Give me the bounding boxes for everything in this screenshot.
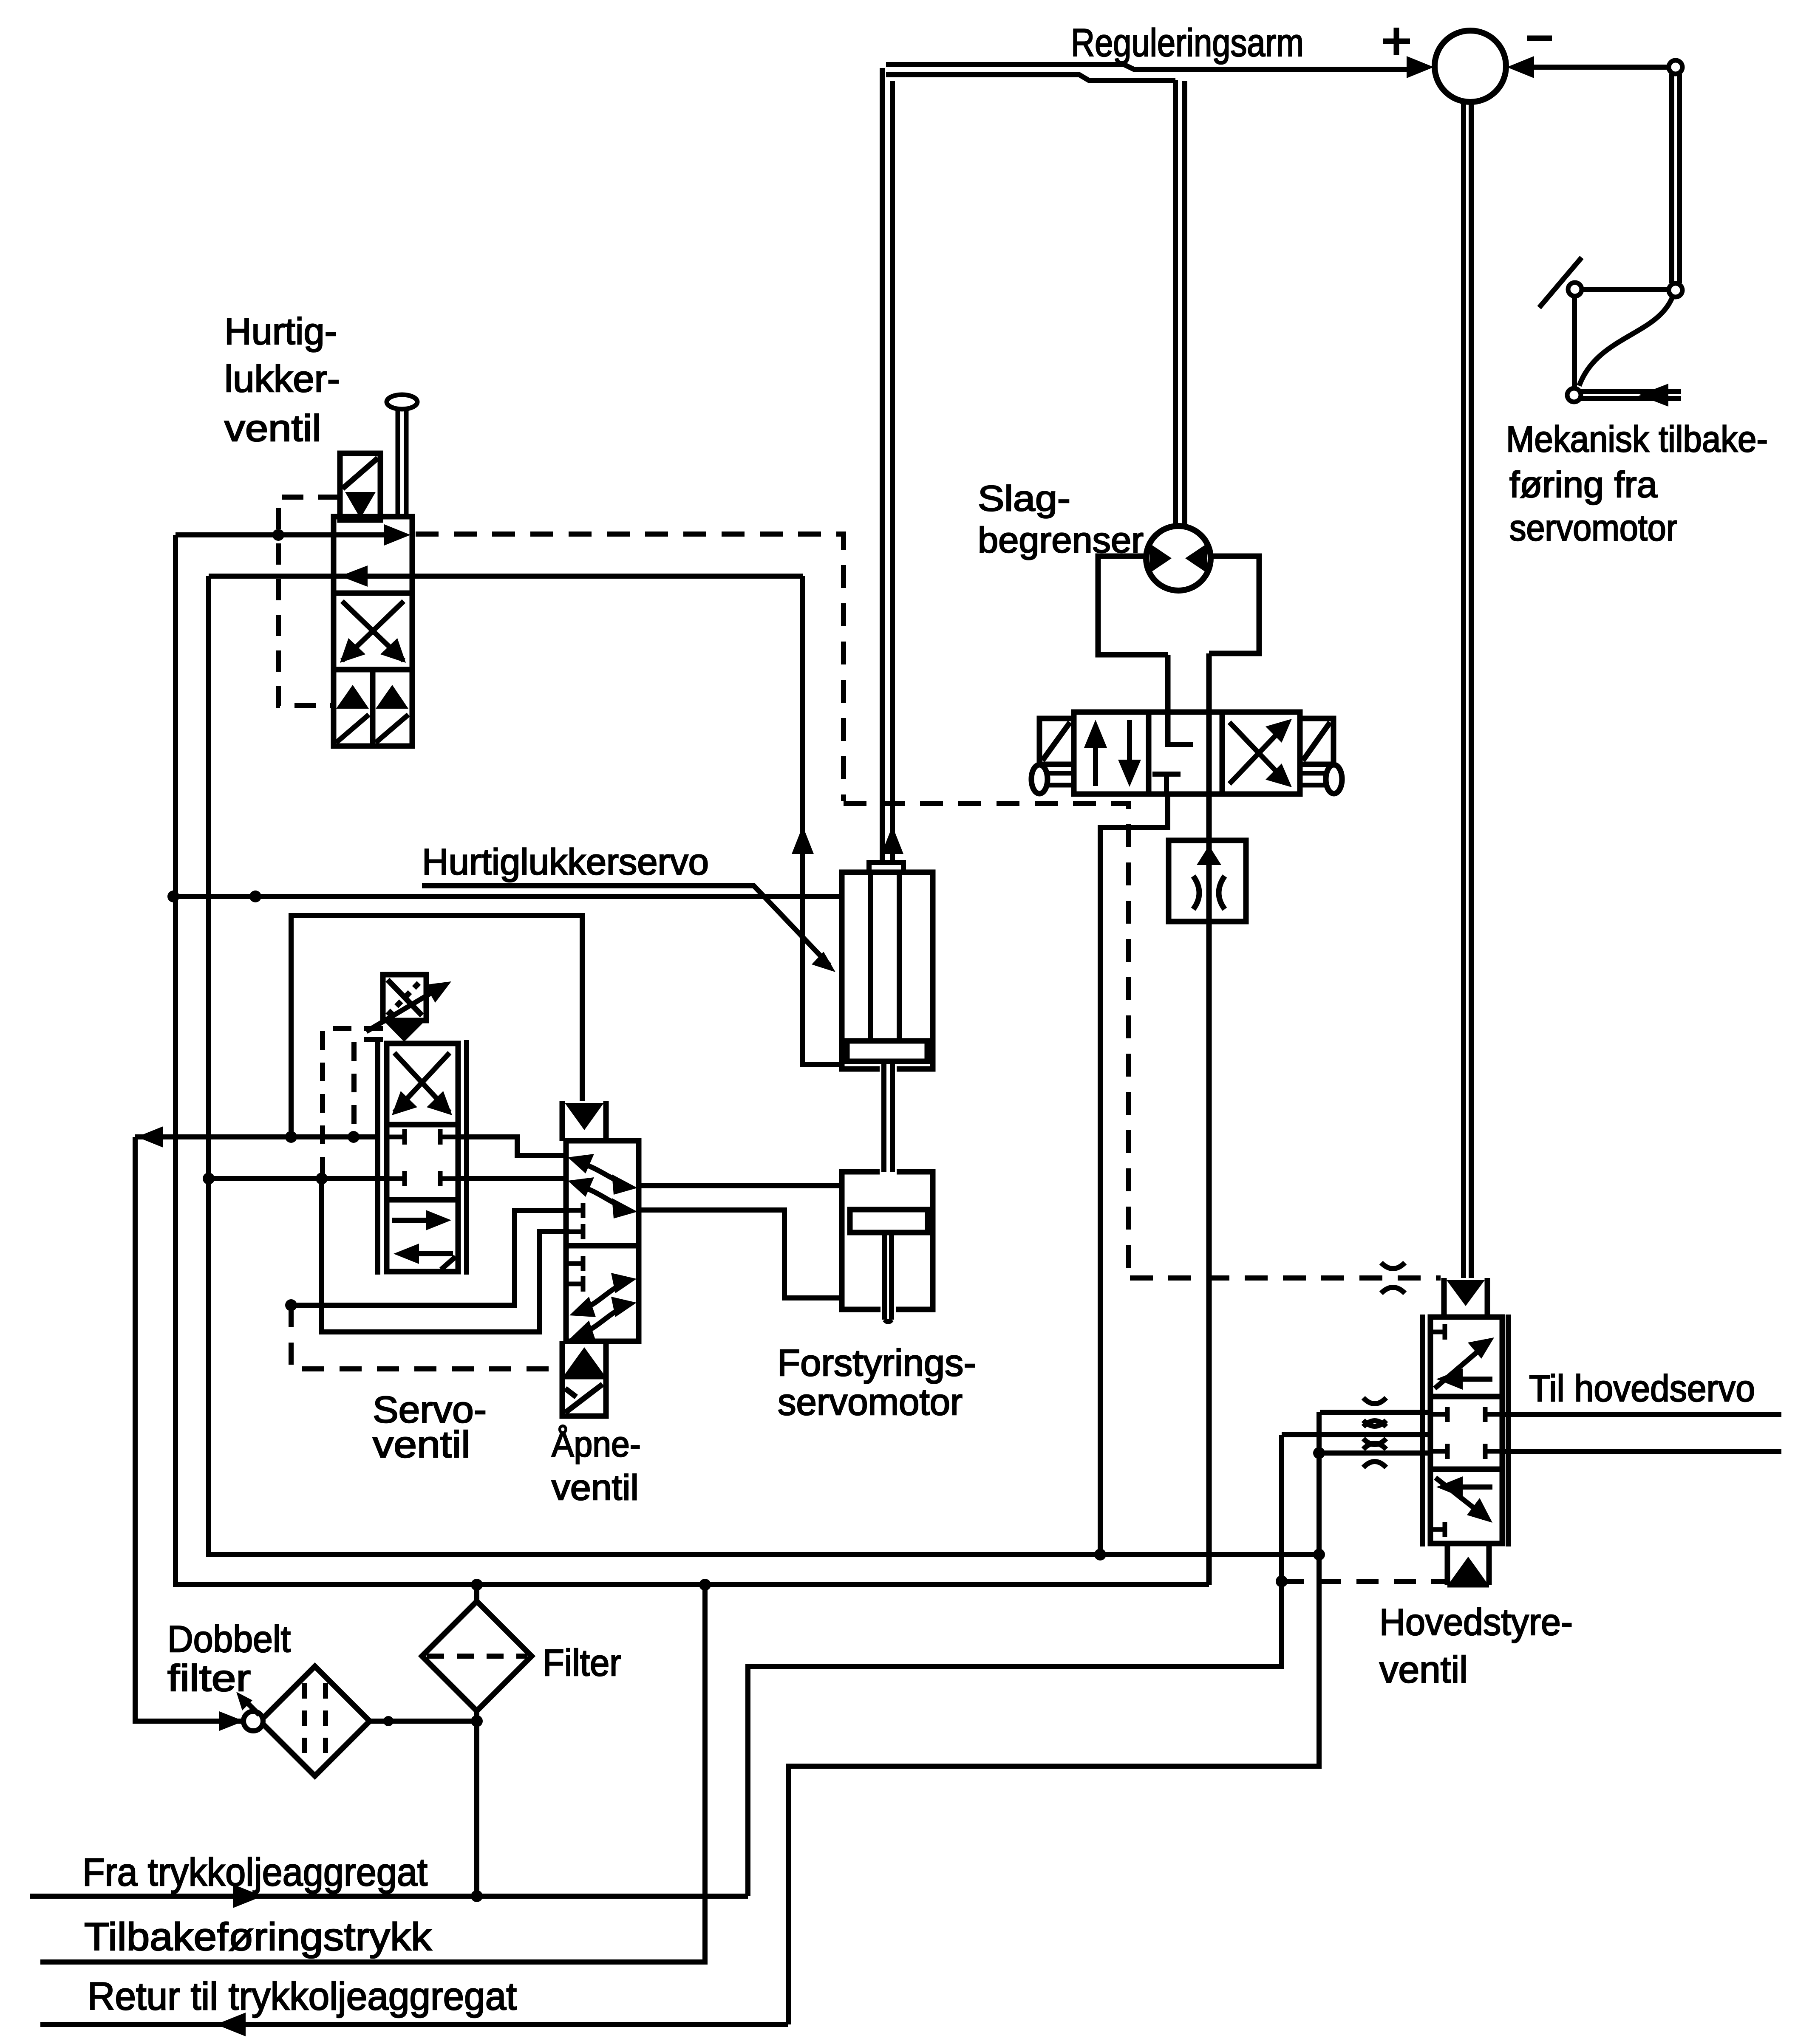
svg-text:Dobbelt: Dobbelt [167, 1618, 291, 1660]
label ventil hovedstyre [1379, 1648, 1468, 1691]
spring detent right cell of hurtiglukkerventil [376, 685, 408, 743]
label Tilbakefoeringstrykk [84, 1915, 432, 1959]
solenoid of hurtiglukkerventil [340, 453, 380, 520]
label ventil apne [552, 1467, 639, 1507]
throttle check box on right pipe [1169, 840, 1246, 922]
arrow into dobbelt filter [219, 1711, 244, 1731]
svg-text:Til hovedservo: Til hovedservo [1529, 1367, 1755, 1409]
wire vertical 3016 from port2 to line 3922 [748, 1435, 1282, 1896]
hovedstyre top cell left arrow [1436, 1368, 1492, 1390]
piston rod between cylinders [884, 1061, 892, 1172]
wire line2 y2774 [209, 1176, 387, 1181]
label filter [167, 1657, 251, 1699]
mechanical link horizontal [1581, 287, 1669, 292]
svg-text:ventil: ventil [373, 1423, 470, 1465]
svg-text:Tilbakeføringstrykk: Tilbakeføringstrykk [84, 1915, 432, 1959]
valve middle cell blocked L port [1168, 712, 1193, 744]
svg-text:Hurtig-: Hurtig- [224, 310, 337, 352]
arrow right on supply line [233, 1884, 263, 1908]
slagbegrenser directional valve body [1074, 712, 1300, 794]
valve middle cell blocked T port [1152, 774, 1181, 794]
junction dot at 914,4051 [383, 1716, 394, 1726]
wire apne right port2 to cylinder lower port [639, 1210, 842, 1298]
flow arrow up on rod [881, 826, 903, 854]
junction dot at 408,2110 [167, 891, 179, 902]
label foering fra [1509, 464, 1657, 505]
label Reguleringsarm [1071, 21, 1304, 65]
filter diamond dashed diagonal [427, 1654, 527, 1659]
wire rod down to slagbegrenser right line [1182, 81, 1187, 528]
wire reguleringsarm upper line [886, 65, 1409, 69]
apne bottom spring arrow box [562, 1341, 606, 1377]
label Slag- [978, 478, 1070, 518]
wire hovedstyre right port 2 [1502, 1449, 1781, 1454]
pipe left leg through valve [1165, 655, 1171, 744]
dashed pilot line from valve to right [416, 534, 1441, 1278]
svg-text:servomotor: servomotor [1509, 508, 1677, 548]
manual pin left [1031, 765, 1074, 794]
junction dot line3659 at 3104 [1313, 1549, 1325, 1561]
apne lower cell curved arrows [569, 1273, 637, 1341]
apne upper cell T ports [566, 1203, 583, 1239]
dashed pilot line left of hurtiglukkerventil [278, 497, 339, 706]
wire from line2 down to line4 and up to apne port4 [322, 1179, 569, 1332]
apne spring box [562, 1377, 606, 1416]
pilot triangle seat [386, 1023, 423, 1042]
summing junction circle [1435, 31, 1506, 102]
wire hovedstyre right port 1 [1502, 1412, 1781, 1417]
solenoid left of slagbegrenser valve [1039, 718, 1074, 764]
servo bottom cell right arrow [392, 1210, 451, 1230]
junction dot line3 at 685 [285, 1299, 297, 1311]
junction dot line2 at 491 [203, 1173, 215, 1185]
apne lower cell T ports [566, 1256, 583, 1292]
svg-text:filter: filter [167, 1657, 251, 1699]
svg-text:Slag-: Slag- [978, 478, 1070, 518]
wire dobbelt filter to filter vertical [370, 1721, 477, 1896]
servo pilot pressure box [383, 975, 426, 1021]
wire frame from line1 up and over to apne-ventil feed [291, 916, 582, 1137]
fulcrum pivot circle [1568, 283, 1582, 296]
hurtiglukkerventil body [334, 517, 412, 746]
svg-text:ventil: ventil [224, 407, 321, 449]
wire line1 y2676 with left arrow [135, 1126, 378, 1148]
label Retur til trykkoljeaggregat [88, 1975, 517, 2018]
junction dot port3 [1313, 1447, 1325, 1459]
hovedstyreventil input arrow box [1444, 1278, 1487, 1317]
wire hovedstyre left port2 from vertical 3016 [1282, 1432, 1430, 1437]
changeover lever with arrow [236, 1692, 259, 1715]
pipe right leg down to bottom line [1206, 653, 1212, 1585]
supply line fra trykkoljeaggregat [30, 1894, 748, 1899]
servo cylinder collar [869, 862, 903, 872]
flexible link s-curve [1579, 297, 1673, 386]
label Hovedstyre- [1379, 1601, 1573, 1643]
wire supply line y2110 to servo cylinder [173, 894, 842, 899]
valve left cell up arrow [1084, 720, 1107, 786]
forstyringsservomotor piston [850, 1210, 928, 1233]
crossed arrows in hurtiglukkerventil middle cell [340, 601, 406, 663]
arrow into summing circle from left [1407, 56, 1434, 78]
label begrenser [978, 520, 1144, 560]
dashed pilot rectangle seg A of servo pilot [323, 1029, 383, 1176]
label Servo- [373, 1388, 487, 1431]
label Hurtiglukkerservo underlined [422, 842, 709, 882]
apne-ventil feed arrow box top [562, 1101, 606, 1141]
dobbelt filter dashed internals [304, 1683, 326, 1759]
hovedstyreventil body [1430, 1317, 1502, 1544]
label lukker- [224, 358, 340, 400]
up arrow inside throttle box [1197, 845, 1221, 865]
arrow left on return line [216, 2013, 246, 2036]
servo middle cell port T marks [387, 1129, 458, 1186]
wire long vertical V491 to line 3659 [209, 576, 1319, 1555]
junction dot dashed pilot on port line [272, 529, 284, 541]
hovedstyre top cell diagonal arrow [1435, 1337, 1494, 1388]
pivot joint top right [1669, 60, 1682, 74]
svg-text:ventil: ventil [552, 1467, 639, 1507]
junction dot dashed pilot at 3016 [1276, 1575, 1288, 1587]
hovedstyreventil side rails [1422, 1315, 1508, 1546]
label Mekanisk tilbake- [1506, 419, 1768, 460]
label servomotor [1509, 508, 1677, 548]
leader line of hurtiglukkerservo label [422, 886, 835, 972]
valve left cell down arrow [1118, 720, 1141, 787]
svg-text:Fra trykkoljeaggregat: Fra trykkoljeaggregat [82, 1851, 428, 1894]
dashed pilot seg B of servo pilot [354, 1040, 383, 1134]
wire vertical V318 down to dobbelt filter line [135, 1137, 244, 1721]
wire servo right port to apne p1 with jog [458, 1137, 565, 1156]
wire from right pivot to summing circle [1532, 65, 1670, 70]
cam wedge left [1149, 543, 1172, 573]
pivot joint lower [1567, 388, 1581, 402]
svg-text:Reguleringsarm: Reguleringsarm [1071, 21, 1304, 65]
servo-ventil side rails [378, 1040, 467, 1275]
hovedstyre bottom cell diagonal arrow [1435, 1478, 1492, 1523]
changeover circle [243, 1711, 263, 1731]
wire servo right port to apne p2 [458, 1176, 565, 1181]
servo cylinder inner tube [871, 872, 899, 1041]
wire long vertical V413 to bottom line [176, 535, 1209, 1585]
solenoid right of slagbegrenser valve [1300, 718, 1334, 764]
wire line3 y3072 to apne port3 [291, 1210, 569, 1305]
dashed pilot to hovedstyre spring box [1282, 1579, 1445, 1584]
hovedstyre bottom cell T port [1430, 1522, 1445, 1537]
valve right cell crossed arrows [1229, 719, 1292, 787]
slagbegrenser cam circle [1146, 526, 1211, 591]
junction dot at 601,2110 [249, 891, 261, 902]
label Til hovedservo [1529, 1367, 1755, 1409]
regulating rod double line down to servo cylinder [882, 68, 892, 863]
pivot joint middle right [1669, 283, 1682, 297]
svg-text:servomotor: servomotor [778, 1381, 963, 1423]
orifice on port line3 [1363, 1439, 1386, 1467]
filter diamond [422, 1601, 532, 1711]
svg-text:Hovedstyre-: Hovedstyre- [1379, 1601, 1573, 1643]
orifice on port line1 [1363, 1398, 1386, 1427]
manual pin of hurtiglukkerventil [387, 395, 417, 517]
svg-text:føring fra: føring fra [1509, 464, 1657, 505]
label servomotor forstyrings [778, 1381, 963, 1423]
rod from summing circle to hovedstyreventil double line [1464, 102, 1471, 1278]
dobbelt filter diamond [260, 1666, 370, 1776]
svg-text:Mekanisk tilbake-: Mekanisk tilbake- [1506, 419, 1768, 460]
wire vertical from y1356 down to cylinder bottom [803, 576, 842, 1064]
hovedstyre top cell T port [1430, 1324, 1445, 1340]
wire port line with right arrow y1259 [176, 524, 411, 546]
wire hovedstyre left port1 from vertical [1320, 1410, 1430, 1415]
servo bottom cell left arrow [394, 1244, 456, 1269]
manual pin right [1300, 765, 1342, 794]
svg-text:Forstyrings-: Forstyrings- [777, 1342, 976, 1384]
orifice on port line2 [1363, 1420, 1386, 1449]
wire apne right port1 to cylinder [639, 1183, 842, 1188]
dashed wire from line3 down and right to apne bottom [291, 1305, 560, 1369]
junction dot line3659 at 2589 [1094, 1549, 1106, 1561]
link from fulcrum down [1572, 296, 1577, 389]
servo top cell crossed arrows [392, 1053, 452, 1115]
label Dobbelt [167, 1618, 291, 1660]
feedback pressure line [40, 1585, 705, 1962]
mechanical link vertical right double line [1672, 74, 1679, 283]
junction dot line2 at 757 [316, 1173, 328, 1185]
label Forstyrings- [777, 1342, 976, 1384]
wire vertical 3104 from port1 to line 4157 [788, 1412, 1319, 2024]
wire port line with left arrow y1356 [209, 565, 803, 587]
svg-text:lukker-: lukker- [224, 358, 340, 400]
orifice on dashed pilot line [1381, 1263, 1405, 1293]
wire reguleringsarm lower line [886, 75, 1175, 80]
svg-text:Filter: Filter [543, 1642, 621, 1684]
spring detent left cell of hurtiglukkerventil [336, 685, 369, 743]
flow arrow up on vertical 1889 [792, 826, 814, 854]
return line [40, 2022, 788, 2027]
servo-ventil body [387, 1043, 458, 1272]
piston rod lower end [885, 1233, 892, 1322]
label ventil servo [373, 1423, 470, 1465]
label ventil [224, 407, 321, 449]
adjustment arrow through pilot box [366, 981, 451, 1032]
svg-text:Åpne-: Åpne- [552, 1424, 641, 1464]
orifice arcs inside throttle box [1193, 876, 1225, 909]
arrow on feedback rod pointing left [1639, 384, 1668, 407]
apne upper cell curved arrows [568, 1154, 637, 1218]
label Apne- [552, 1424, 641, 1464]
wire from valve left port down and to long vertical [1100, 794, 1168, 1554]
junction dot supply line at 1122 [471, 1890, 483, 1902]
junction dot line3730 at 1659 [699, 1579, 711, 1591]
label Filter [543, 1642, 621, 1684]
junction dot line3730 at 1122 [471, 1579, 483, 1591]
arrow into summing circle from right [1507, 56, 1534, 78]
servo cylinder piston [847, 1041, 927, 1061]
junction dot line1 at 685 [285, 1131, 297, 1143]
slagbegrenser housing box [1098, 556, 1259, 655]
svg-text:Retur til trykkoljeaggregat: Retur til trykkoljeaggregat [88, 1975, 517, 2018]
svg-text:Hurtiglukkerservo: Hurtiglukkerservo [422, 842, 709, 882]
fulcrum lever diagonal [1539, 257, 1582, 308]
filter connection stubs [474, 1587, 479, 1721]
apne-ventil body [566, 1141, 639, 1341]
hovedstyre middle cell T ports [1430, 1407, 1502, 1459]
forstyringsservomotor cylinder body [842, 1172, 933, 1309]
wire hovedstyre left port3 [1318, 1450, 1430, 1456]
minus sign [1527, 36, 1552, 41]
junction dot line1 at 832 [348, 1131, 360, 1143]
plus sign [1383, 28, 1410, 55]
hovedstyre spring arrow box bottom [1447, 1544, 1489, 1585]
hovedstyre bottom cell left arrow [1436, 1476, 1492, 1498]
junction dot at 1122,4051 [471, 1715, 483, 1727]
label Fra trykkoljeaggregat [82, 1851, 428, 1894]
servomotor feedback rod double line [1581, 392, 1681, 399]
servo cylinder body [842, 872, 933, 1069]
label Hurtig- [224, 310, 337, 352]
cam wedge right [1185, 543, 1207, 573]
svg-text:ventil: ventil [1379, 1648, 1468, 1691]
wire rod down to slagbegrenser left line [1173, 80, 1178, 528]
